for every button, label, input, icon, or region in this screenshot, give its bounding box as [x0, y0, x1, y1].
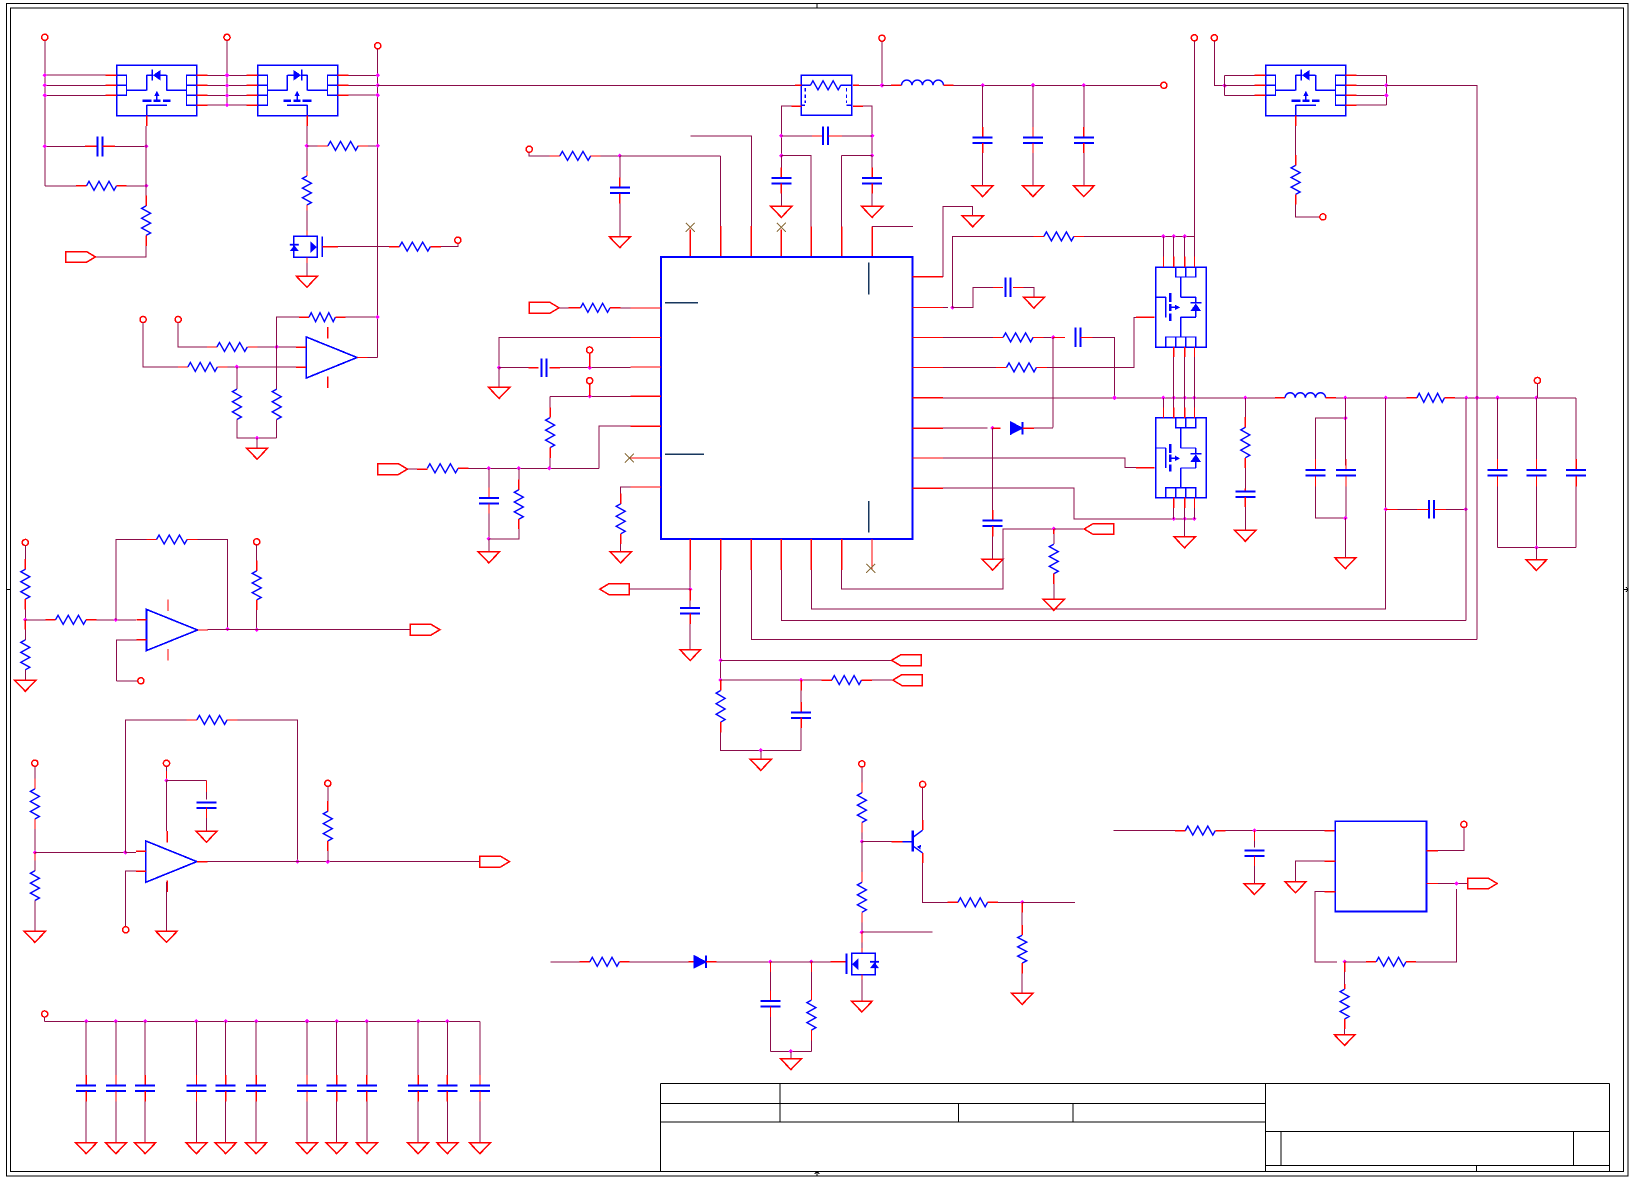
U3 pin5 stub [1427, 850, 1438, 852]
ground [862, 206, 883, 217]
wire divider top [24, 546, 26, 560]
wire bank cap 1 [85, 1021, 87, 1075]
wire C20 top [769, 962, 771, 972]
wire VOUT rail [1455, 397, 1576, 399]
diode D1 [1011, 422, 1023, 434]
wire Q4 top pin x=1184.6 [1184, 236, 1186, 256]
capacitor C7 [862, 178, 882, 184]
wire FB vertical 1 [1385, 398, 1387, 610]
IC bottom pin x=811.3 [810, 539, 812, 570]
connector J1 pin circle [42, 34, 48, 40]
wire to R5 [307, 145, 318, 147]
wire to R1 [45, 185, 76, 187]
wire Cout column x=1497.5 [1497, 398, 1499, 459]
resistor R28 [1018, 935, 1027, 963]
Q5 bottom pin stub x=1173.7 [1173, 498, 1175, 508]
wire Q1-Q2 row y=75.3 [208, 74, 247, 76]
wire Vcc to C21 [167, 779, 207, 781]
IC left pin y=396.3 [631, 395, 662, 397]
wire C12 to SW [1092, 337, 1114, 397]
ground [469, 1143, 490, 1154]
capacitor CB7 [297, 1086, 317, 1092]
resistor R11 [560, 151, 591, 160]
wire C10 column [488, 468, 490, 487]
wire U3 fb low [1315, 892, 1337, 962]
port P9 [1468, 878, 1498, 889]
wire Q2 right row y=85.4 [349, 84, 378, 86]
wire stub right [1022, 901, 1075, 903]
wire Q4 top pin x=1163.4 [1162, 236, 1164, 256]
capacitor C21 [197, 802, 217, 808]
connector circle [1534, 377, 1540, 383]
wire boot column [1052, 337, 1054, 427]
resistor R20 [1417, 393, 1445, 402]
resistor R27 [958, 898, 988, 907]
wire fuse to junction [859, 84, 882, 86]
IC left pin y=426.1 [631, 425, 662, 427]
ground [1174, 537, 1195, 548]
wire bank cap 2 [115, 1021, 117, 1075]
wire U4 -in [117, 640, 137, 678]
wire U3 pin2 gnd [1296, 861, 1325, 882]
wire pin720 down [720, 570, 722, 680]
ground [1285, 882, 1306, 893]
wire node to port P8 [1054, 528, 1084, 530]
wire snubber R21 [1244, 398, 1246, 417]
fuse lead bl [801, 104, 805, 106]
connector circle3 [375, 43, 381, 49]
IC right pin y=307.5 [913, 307, 944, 309]
wire FB row 3 [751, 570, 1477, 640]
ground [15, 680, 36, 691]
ground [610, 552, 631, 563]
no-connect x [777, 223, 786, 232]
connector circle [175, 316, 181, 322]
capacitor C17 [1429, 500, 1434, 519]
fuse dashed left [804, 88, 806, 103]
wire SW to Q5 pin x=1163.4 [1162, 398, 1164, 408]
connector circle [587, 347, 593, 353]
wire D1 to boot [1034, 427, 1053, 429]
wire divider2 top [34, 766, 36, 778]
resistor R35 [157, 535, 188, 544]
transistor Q7 [912, 831, 914, 852]
wire gate net left [551, 961, 580, 963]
wire bank cap 7 [306, 1021, 308, 1075]
Q5 bottom pin stub x=1194.4 [1193, 498, 1195, 508]
port P2 [378, 464, 408, 475]
IC right pin y=337.4 [913, 336, 944, 338]
ground [326, 1143, 347, 1154]
wire Q1-Q2 row y=85.4 [208, 84, 247, 86]
fuse pin3 stub [791, 105, 801, 107]
connector circle [859, 761, 865, 767]
resistor R33 [21, 640, 30, 670]
IC bottom pin x=781.3 [780, 539, 782, 570]
ground [609, 237, 630, 248]
wire to IC pin [781, 156, 811, 227]
wire R42 top [1344, 962, 1346, 972]
capacitor C5 [823, 127, 828, 146]
IC U3 [1335, 821, 1426, 911]
wire Q1 gate column [145, 126, 147, 196]
wire circle2 column [226, 40, 228, 105]
resistor R25 [1049, 544, 1058, 574]
ground [186, 1143, 207, 1154]
wire gate drive LS [943, 458, 1143, 468]
capacitor C18 [680, 608, 700, 614]
resistor R18 [1003, 333, 1033, 342]
resistor R24 [716, 691, 725, 723]
wire pin277 to gnd [943, 207, 973, 277]
circle stem [1536, 384, 1538, 398]
wire R25 top [1053, 529, 1055, 534]
inductor L1 [902, 80, 944, 85]
wire Q3 gate stub [323, 246, 339, 248]
connector circle [1191, 35, 1197, 41]
ground [771, 206, 792, 217]
wire Cout bottom join [1498, 547, 1577, 549]
ground [437, 1143, 458, 1154]
resistor R5 [328, 141, 358, 150]
MOSFET Q8 [847, 953, 879, 974]
wire to C1 [45, 145, 85, 147]
op-amp U5 [146, 841, 197, 882]
capacitor C9 [542, 358, 547, 377]
wire to Q1 left pin y=85.4 [45, 84, 106, 86]
wire to VIN caps [954, 84, 1161, 86]
ground [1244, 884, 1265, 895]
ground [76, 1143, 97, 1154]
resistor R12 [581, 303, 611, 312]
wire Q6 right row y=85.3 [1357, 84, 1387, 86]
wire bank stem [44, 1017, 46, 1021]
IC right pin y=458.0 [913, 457, 944, 459]
wire to IC pin x=720.6 [620, 155, 721, 157]
wire divider bottom [24, 620, 26, 630]
IC left pin y=337.4 [631, 336, 662, 338]
IC left pin y=458.0 [631, 457, 662, 459]
Q5 gate stub [1136, 467, 1143, 469]
ground [356, 1143, 377, 1154]
wire RC bottom [770, 1050, 811, 1052]
wire R4 to circle [441, 243, 458, 246]
wire pin690 down [689, 570, 691, 589]
ground [24, 931, 45, 942]
wire bank cap 4 [195, 1021, 197, 1075]
wire gate drive HS [1047, 317, 1143, 367]
wire circle to Q4 pin column [1193, 41, 1195, 237]
resistor R29 [857, 882, 866, 912]
wire cap column x=1083.8 [1083, 85, 1085, 127]
ground [135, 1143, 156, 1154]
capacitor C8 [610, 188, 630, 194]
capacitor C6 [771, 178, 791, 184]
ground [1235, 530, 1256, 541]
wire fork row y=95.4 [1225, 94, 1255, 96]
IC pin stub nc [689, 230, 691, 257]
capacitor CB5 [216, 1086, 236, 1092]
wire to R34 [25, 619, 45, 621]
connector circle [1320, 214, 1326, 220]
wire Q7 collector [922, 788, 924, 820]
wire pin841 to node [842, 529, 1054, 589]
wire C19 top [800, 680, 802, 690]
wire feedback up [277, 317, 299, 347]
capacitor CB11 [437, 1086, 457, 1092]
Q4 bottom pin stub x=1173.7 [1173, 347, 1175, 357]
IC pin stub nc [780, 230, 782, 258]
resistor R31 [807, 1000, 816, 1030]
diode D2 [694, 956, 706, 968]
port P10 [529, 302, 559, 313]
capacitor C11 [1006, 278, 1011, 297]
connector circle [587, 378, 593, 384]
fuse dashed right [846, 88, 848, 103]
wire R17 to Q4 top pins [1084, 235, 1194, 237]
wire SW to Q5 pin x=1173.7 [1173, 398, 1175, 408]
capacitor C16 [1336, 470, 1356, 476]
resistor R2 [142, 206, 151, 236]
connector circle [138, 678, 144, 684]
wire circle to R11 [529, 152, 549, 156]
wire U3 input [1114, 830, 1176, 832]
wire LS source bus [943, 488, 1194, 519]
IC left pin y=486.9 [631, 486, 662, 488]
ground [1335, 558, 1356, 569]
wire Q6 right row y=95.4 [1357, 94, 1387, 96]
port P6 [892, 655, 922, 666]
connector circle [920, 781, 926, 787]
ground [750, 759, 771, 770]
port P8 [1084, 524, 1114, 535]
connector circle [123, 927, 129, 933]
op-amp U2 [306, 337, 357, 378]
wire circle3 long vertical to op-amp U2 output [377, 49, 379, 358]
connector circle [22, 539, 28, 545]
ground [680, 650, 701, 661]
wire fork bracket [1224, 75, 1226, 95]
wire circle to R7 [143, 323, 178, 367]
capacitor C19 [791, 712, 811, 718]
IC right pin y=397.8 [913, 397, 944, 399]
ground [246, 1143, 267, 1154]
wire U2 out [368, 357, 378, 359]
wire bank cap 8 [336, 1021, 338, 1075]
wire to U4 +in [96, 619, 136, 621]
fuse lead br [847, 104, 852, 106]
fuse lead right [841, 84, 852, 86]
resistor R1 [87, 181, 117, 190]
ground [297, 1143, 318, 1154]
resistor R6 [217, 343, 247, 352]
connector circle [254, 539, 260, 545]
IC bottom pin x=751.3 [750, 539, 752, 570]
wire pin487 to R16 [621, 487, 631, 494]
resistor R36 [30, 789, 39, 819]
border tick left [7, 589, 11, 591]
connector circle [140, 316, 146, 322]
wire Q2 right row y=95.1 [349, 94, 378, 96]
ground [105, 1143, 126, 1154]
Q4 bottom pin stub x=1194.4 [1193, 347, 1195, 357]
IC right pin y=276.8 [913, 276, 944, 278]
wire to C9 [499, 367, 529, 369]
connector circle [1461, 821, 1467, 827]
connector circle [879, 35, 885, 41]
wire circle1 column [44, 40, 46, 185]
IC bottom pin x=690.2 [689, 539, 691, 570]
resistor R4 [399, 242, 430, 251]
connector circle [42, 1011, 48, 1017]
fuse element [810, 81, 840, 90]
wire to U2 -in [258, 346, 297, 348]
capacitor C14 [1235, 491, 1255, 497]
capacitor Cout x=1497.5 [1488, 470, 1508, 476]
capacitor CB3 [135, 1086, 155, 1092]
connector circle [32, 760, 38, 766]
wire Q4 top pin x=1194.4 [1193, 236, 1195, 256]
ground [408, 1143, 429, 1154]
wire R41 to out [1416, 889, 1456, 962]
wire fork row y=75.3 [1225, 74, 1255, 76]
ground [215, 1143, 236, 1154]
resistor R21 [1241, 427, 1250, 458]
port P3 [410, 624, 440, 635]
wire Q6 gate [1295, 126, 1297, 155]
IC bottom pin x=841.6 [841, 539, 843, 570]
ground [1526, 560, 1547, 571]
dual MOSFET Q5 low-side [1156, 418, 1207, 498]
dual MOSFET Q4 high-side [1156, 267, 1207, 347]
capacitor C22 [1244, 850, 1264, 856]
fuse lead left [801, 84, 810, 86]
resistor R8 [232, 389, 241, 419]
wire to port P6 [721, 659, 892, 661]
wire R28 top [1021, 902, 1023, 912]
IC left pin y=366.9 [631, 366, 662, 368]
resistor R10 feedback [309, 313, 335, 322]
wire R24 top [720, 680, 722, 690]
wire Q2 gate column [306, 126, 308, 171]
resistor R15 [514, 490, 523, 519]
wire Q8 gate stub [831, 961, 846, 963]
dual MOSFET Q2 [247, 65, 349, 126]
port P7 [893, 675, 923, 686]
ground [478, 552, 499, 563]
resistor R39 [323, 811, 332, 841]
wire C22 top [1253, 831, 1255, 841]
U3 pin2 stub [1325, 860, 1336, 862]
resistor R26 [857, 793, 866, 823]
connector circle [325, 780, 331, 786]
op-amp U4 [147, 609, 198, 650]
wire row 680 [721, 679, 822, 681]
wire Q6 right row y=105.2 [1357, 104, 1387, 106]
capacitor CB1 [76, 1086, 96, 1092]
wire fuse pin4 down [863, 106, 872, 155]
capacitor CB12 [470, 1086, 490, 1092]
dual MOSFET Q1 [106, 65, 208, 126]
IC bottom pin x=720.6 [720, 539, 722, 570]
wire bank cap 3 [144, 1021, 146, 1075]
wire C15 bottom [1316, 486, 1346, 518]
circle stem [589, 384, 591, 397]
resistor R13 [546, 418, 555, 448]
node [689, 588, 691, 590]
resistor R23 [832, 676, 862, 685]
circle stem [589, 353, 591, 368]
resistor R17 [1044, 232, 1074, 241]
ground [296, 276, 317, 287]
ground [1012, 993, 1033, 1004]
wire FB vertical 2 [1465, 398, 1467, 621]
capacitor C10 [479, 498, 499, 504]
ground [962, 216, 983, 227]
capacitor C x=1083.8 [1074, 137, 1094, 143]
wire circle stem [881, 41, 883, 85]
resistor R14 [427, 464, 458, 473]
wire Vcc to U5 [166, 780, 168, 831]
resistor R3 [302, 176, 311, 205]
ground [1043, 599, 1064, 610]
capacitor C13 [983, 521, 1003, 527]
wire feedback U4 [116, 540, 146, 620]
IC right pin y=428.1 [913, 427, 944, 429]
MOSFET Q3 [290, 236, 322, 257]
wire Q3 source [306, 257, 308, 263]
resistor R9 [272, 389, 281, 419]
title block [660, 1083, 1609, 1085]
ground [851, 1001, 872, 1012]
wire R9 top [276, 347, 278, 389]
port P5 [600, 584, 630, 595]
capacitor CB8 [327, 1086, 347, 1092]
no-connect x [866, 564, 875, 573]
wire R22 to circle [1296, 205, 1320, 217]
resistor R30 [590, 957, 620, 966]
wire Q6 to VOUT vertical [1386, 85, 1477, 398]
wire pin337 to gnd node [499, 337, 630, 367]
resistor R41 [1376, 957, 1406, 966]
wire stub right [872, 226, 913, 228]
U3 pin3 stub [1325, 891, 1336, 893]
wire to Q1 left pin y=75.2 [45, 74, 106, 76]
wire feedback down right [237, 720, 297, 862]
wire U5 vee [166, 882, 168, 896]
ground [1023, 297, 1044, 308]
dual MOSFET Q6 [1255, 65, 1357, 126]
wire to U5 +in [35, 852, 125, 854]
wire Q7 bias [861, 767, 863, 783]
wire Cout column x=1536.4 [1535, 398, 1537, 459]
capacitor CB6 [246, 1086, 266, 1092]
resistor R19 [1007, 363, 1037, 372]
IC U1 [661, 257, 913, 539]
border tick top [816, 4, 818, 9]
fuse pin4 stub [853, 105, 863, 107]
resistor R42 [1340, 989, 1349, 1019]
wire RC bottom join [721, 733, 801, 751]
ground [196, 831, 217, 842]
wire U5 out to port [207, 861, 480, 863]
resistor R43 pullup [252, 571, 261, 600]
connector circle [526, 146, 532, 152]
ground [156, 931, 177, 942]
no-connect x [686, 223, 695, 232]
resistor R34 [56, 615, 87, 624]
wire to IC pin2 [842, 155, 873, 157]
